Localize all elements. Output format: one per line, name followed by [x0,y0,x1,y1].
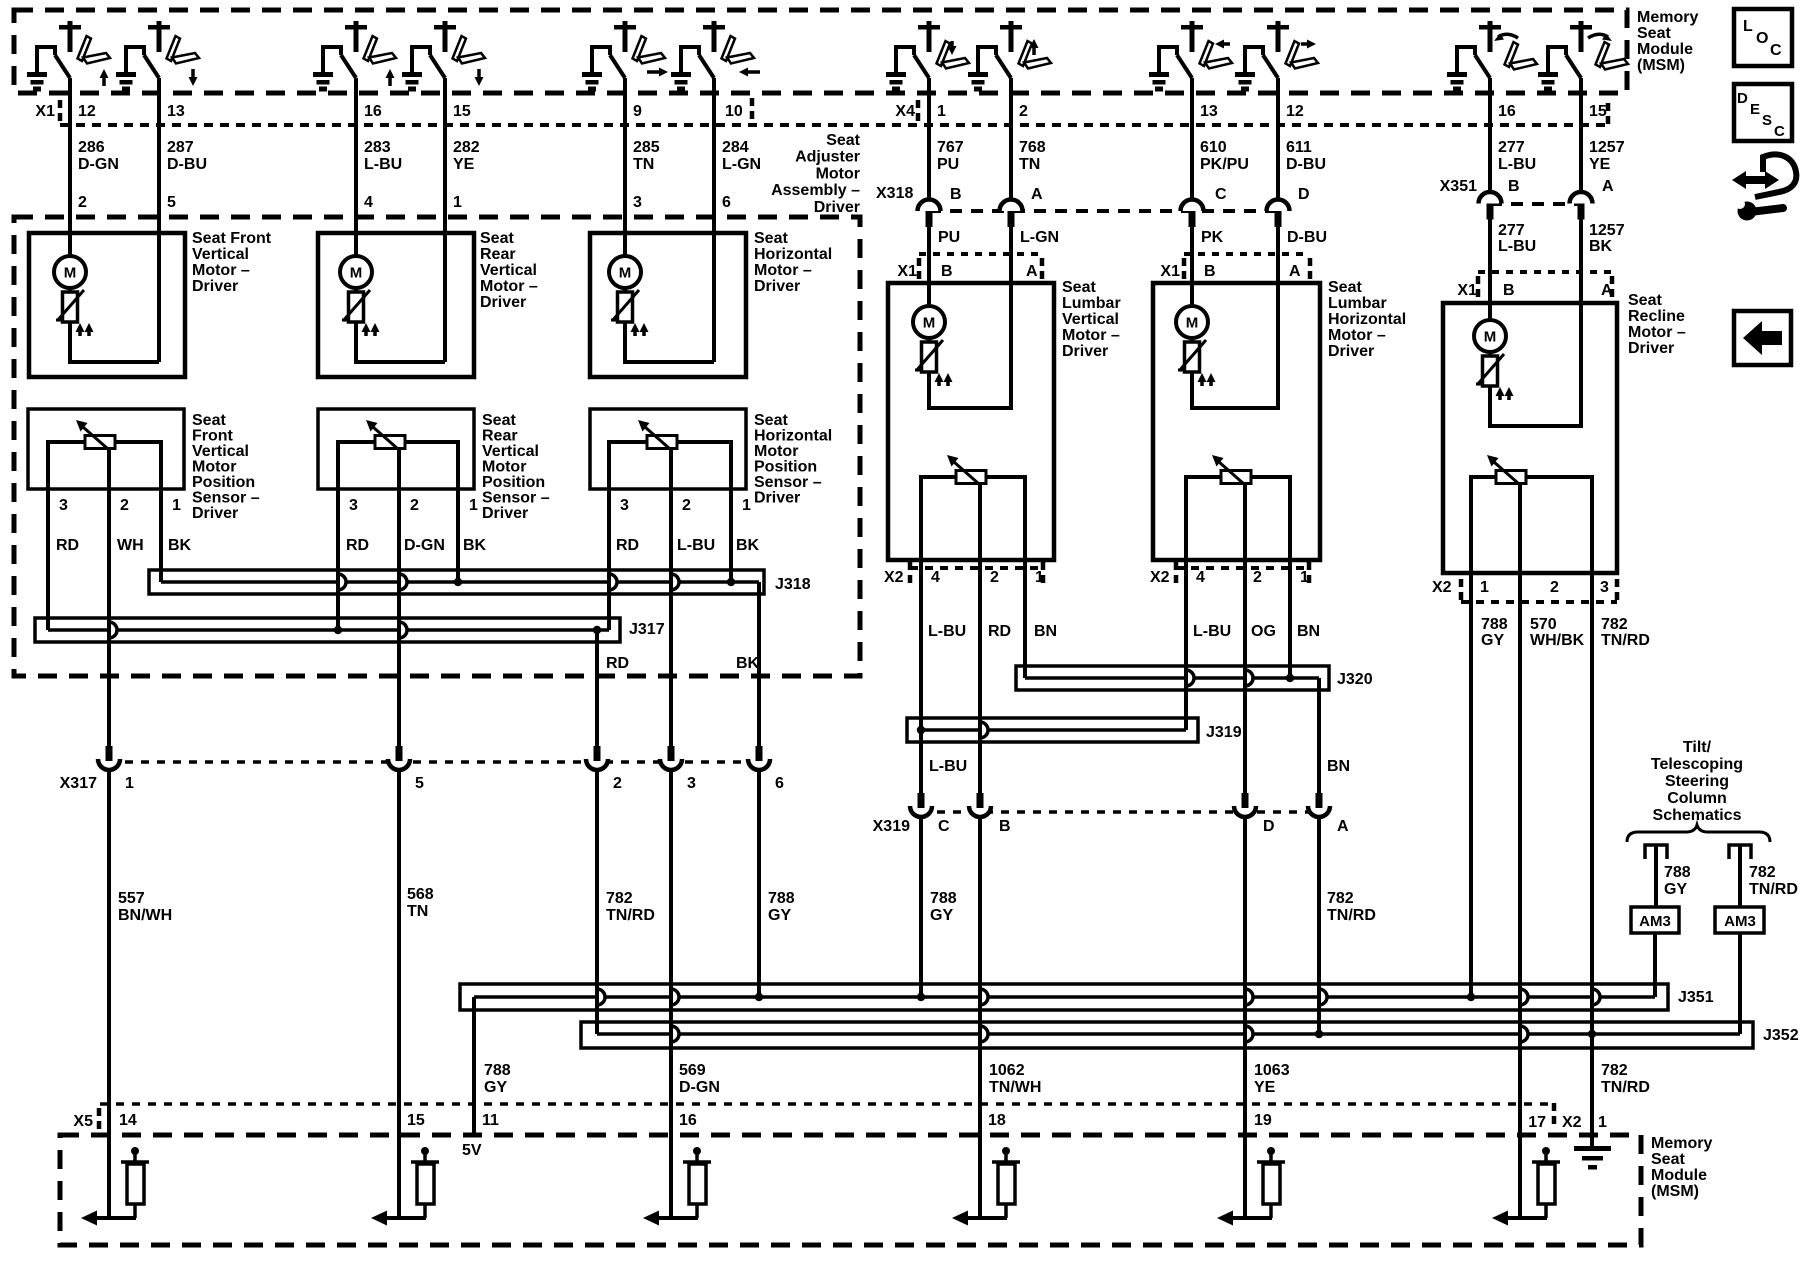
svg-text:TN: TN [1019,156,1040,173]
svg-text:C: C [938,818,950,835]
svg-text:16: 16 [1498,103,1516,120]
switch S9 lumbar horizontal back - contact wire [1159,47,1177,73]
arrow down S2 [191,69,195,79]
svg-text:Seat Front: Seat Front [192,230,272,247]
switch S4 seat rear vertical down - contact wire [412,47,430,73]
svg-text:788: 788 [930,890,957,907]
svg-text:3: 3 [1600,579,1609,596]
svg-text:X351: X351 [1440,178,1477,195]
legend icon double arrow [1743,176,1771,184]
svg-text:Assembly –: Assembly – [771,182,860,199]
svg-text:2: 2 [120,497,129,514]
svg-text:Seat: Seat [1651,1151,1685,1168]
output driver X5-17 [1518,1104,1522,1218]
motor M circle Seat Front Vertical Motor - Driver [54,256,86,288]
switch S8 lumbar vertical up - contact wire [978,47,996,73]
bidirectional arrows lumbar horizontal [1200,380,1204,386]
switch S2 seat front vertical down - pivot T [148,25,170,30]
svg-text:C: C [1215,186,1227,203]
switch S10 lumbar horizontal fwd - pivot T [1267,25,1289,30]
switch S12 recline fwd - blade [1566,55,1581,78]
svg-text:Driver: Driver [192,278,238,295]
connector X319 row [921,810,1319,814]
svg-text:J320: J320 [1337,671,1373,688]
output driver X5-19 [1243,1104,1247,1218]
switch S1 seat front vertical up - output wire [68,78,72,95]
wire lumbar-vert RD [978,560,982,793]
wire sensor1 WH wiper [107,448,111,748]
svg-text:M: M [64,265,77,282]
svg-text:BN: BN [1297,623,1320,640]
switch S3 seat rear vertical up - blade [341,55,356,78]
wire sensor3 L-BU wiper [669,448,673,748]
motor loop lumbar vertical [929,283,1011,408]
svg-text:Driver: Driver [192,505,238,522]
svg-text:S: S [1762,112,1772,129]
svg-text:Lumbar: Lumbar [1328,295,1387,312]
svg-text:Motor –: Motor – [1062,327,1120,344]
wire sensor2 BK [456,455,460,582]
svg-text:Vertical: Vertical [192,443,249,460]
svg-text:D-BU: D-BU [167,156,207,173]
svg-text:TN/RD: TN/RD [606,907,655,924]
switch S2 seat front vertical down - blade [144,55,159,78]
svg-text:Lumbar: Lumbar [1062,295,1121,312]
svg-text:Driver: Driver [482,505,528,522]
svg-text:J352: J352 [1763,1027,1799,1044]
wire 1062 TN/WH [978,815,982,1104]
svg-text:X2: X2 [1562,1114,1582,1131]
svg-text:9: 9 [633,103,642,120]
switch S12 recline fwd - seat icon [1596,42,1610,67]
wire 788 GY from X319-C [919,815,923,997]
svg-text:284: 284 [722,139,749,156]
svg-text:13: 13 [1200,103,1218,120]
wire J351 to X5-11 5V [472,997,476,1135]
output driver X5-16 [669,1104,673,1218]
connector X2 recline [1461,600,1617,604]
wire 782 TN/RD from X319-A [1317,815,1321,1034]
connector mark right of pin 15 [1606,103,1611,127]
svg-text:1257: 1257 [1589,222,1625,239]
svg-text:Horizontal: Horizontal [754,428,832,445]
connector X317 row [109,760,759,764]
switch S5 seat horizontal fwd - blade [610,55,625,78]
svg-text:(MSM): (MSM) [1651,1183,1699,1200]
svg-text:3: 3 [349,497,358,514]
svg-text:16: 16 [364,103,382,120]
legend box left arrow [1734,311,1791,365]
motor box Seat Rear Vertical Motor - Driver [318,233,474,377]
wire sensor3 RD [607,455,611,630]
switch S10 lumbar horizontal fwd - contact wire [1245,47,1263,73]
svg-text:X317: X317 [60,775,97,792]
wire J320 output BN [1317,678,1321,793]
switch S2 seat front vertical down - output wire [157,78,161,95]
chassis ground X2-1 [1574,1146,1611,1151]
wire 284 L-GN [712,94,716,362]
svg-text:D-BU: D-BU [1286,156,1326,173]
svg-text:B: B [950,186,962,203]
svg-text:X1: X1 [35,103,55,120]
legend box LOC [1734,9,1792,66]
switch S7 lumbar vertical down - seat icon [937,41,951,66]
wire 282 YE [443,94,447,362]
switch S9 lumbar horizontal back - seat icon [1200,41,1214,66]
bidirectional arrows Seat Horizontal Motor - Driver [633,330,637,336]
splice bus J351 [460,984,1668,1010]
svg-text:286: 286 [78,139,105,156]
svg-text:Horizontal: Horizontal [1328,311,1406,328]
connector X4 separator [916,100,921,124]
Seat Lumbar Vertical Motor box [888,283,1054,560]
wire 610 PK/PU [1190,94,1194,198]
svg-text:RD: RD [616,537,639,554]
svg-text:1: 1 [1035,569,1044,586]
wire J317 output RD [595,630,599,748]
svg-text:M: M [923,315,936,332]
svg-text:YE: YE [453,156,475,173]
svg-text:X5: X5 [73,1113,93,1130]
svg-text:GY: GY [768,907,791,924]
position sensor potentiometer Seat Rear Vertical Motor Position Sensor - Driver [375,436,405,449]
svg-text:1: 1 [453,194,462,211]
switch S12 recline fwd - output wire [1579,78,1583,95]
switch S10 lumbar horizontal fwd - output wire [1276,78,1280,95]
svg-text:283: 283 [364,139,391,156]
svg-text:BK: BK [736,655,760,672]
bidirectional arrows Seat Rear Vertical Motor - Driver [364,330,368,336]
svg-text:611: 611 [1286,139,1312,156]
svg-text:1: 1 [125,775,134,792]
svg-text:Sensor –: Sensor – [482,490,550,507]
svg-text:Recline: Recline [1628,308,1685,325]
connector X2 lumbar horizontal [1176,566,1309,570]
svg-text:5: 5 [167,194,176,211]
svg-text:AM3: AM3 [1724,913,1756,930]
svg-text:15: 15 [407,1112,425,1129]
svg-text:B: B [1508,178,1520,195]
switch S1 seat front vertical up - blade [55,55,70,78]
wire lumbar-vert BN [1023,560,1027,678]
connector X2 lumbar vertical [910,566,1043,570]
switch S7 lumbar vertical down - pivot T [918,25,940,30]
svg-text:A: A [1601,282,1613,299]
terminal to steering column left [1645,845,1667,859]
svg-text:J351: J351 [1678,989,1714,1006]
svg-text:(MSM): (MSM) [1637,57,1685,74]
wire 277 L-BU [1488,94,1492,192]
svg-text:L-BU: L-BU [1498,238,1536,255]
svg-text:BN/WH: BN/WH [118,907,172,924]
motor M circle Seat Horizontal Motor - Driver [609,256,641,288]
thermal protector Seat Rear Vertical Motor - Driver [354,288,358,292]
svg-text:1063: 1063 [1254,1062,1290,1079]
wire recline 782 TN/RD [1590,573,1594,1146]
switch S1 seat front vertical up - seat icon [78,36,92,61]
sensor leads Seat Rear Vertical Motor Position Sensor - Driver [338,442,375,462]
connector mark right of pin 10 [750,98,755,122]
switch S3 seat rear vertical up - output wire [354,78,358,95]
svg-text:Memory: Memory [1651,1135,1712,1152]
arrow up S3 [388,76,392,86]
switch S3 seat rear vertical up - seat icon [364,36,378,61]
svg-text:788: 788 [484,1062,511,1079]
switch S4 seat rear vertical down - pivot T [434,25,456,30]
switch S5 seat horizontal fwd - ground [590,45,594,73]
svg-text:M: M [350,265,363,282]
arrow left S9 [1222,42,1230,46]
svg-text:1: 1 [469,497,478,514]
svg-text:RD: RD [56,537,79,554]
wire lumbar-horiz L-BU [1184,560,1188,730]
svg-text:788: 788 [768,890,795,907]
connector X5 row [100,1102,1553,1106]
svg-text:WH/BK: WH/BK [1530,632,1585,649]
svg-text:Front: Front [192,428,234,445]
switch S11 recline back - seat icon [1505,42,1519,67]
motor box Seat Horizontal Motor - Driver [590,233,746,377]
motor box Seat Front Vertical Motor - Driver [29,233,185,377]
connector X1 recline [1478,270,1612,274]
svg-text:RD: RD [606,655,629,672]
switch S4 seat rear vertical down - ground [410,45,414,73]
motor M circle Seat Rear Vertical Motor - Driver [340,256,372,288]
svg-text:11: 11 [482,1112,499,1129]
svg-text:X1: X1 [1160,263,1180,280]
thermal protector Seat Horizontal Motor - Driver [623,288,627,292]
svg-text:Driver: Driver [1062,343,1108,360]
svg-text:X2: X2 [1432,579,1452,596]
switch S11 recline back - blade [1475,55,1490,78]
svg-text:2: 2 [1550,579,1559,596]
svg-text:Seat: Seat [482,412,516,429]
svg-text:Motor: Motor [816,165,860,182]
output driver X5-18 [978,1104,982,1218]
svg-text:C: C [1770,42,1782,59]
connector X1 lumbar vertical [919,252,1042,256]
motor loop wire Seat Rear Vertical Motor - Driver [356,322,445,362]
svg-text:2: 2 [613,775,622,792]
output driver X5-14 [107,1104,111,1218]
svg-text:3: 3 [633,194,642,211]
arrow up S8 [1032,46,1036,55]
motor M circle recline [1474,320,1506,352]
wire 788 GY from X317-6 [757,768,761,997]
arrow right S5 [647,70,661,74]
svg-text:D-BU: D-BU [1287,229,1327,246]
svg-text:L-BU: L-BU [929,758,967,775]
splice bus J319 [907,718,1198,742]
svg-text:285: 285 [633,139,660,156]
svg-text:Rear: Rear [480,246,516,263]
splice bus J318 [149,570,764,594]
svg-text:1: 1 [1300,569,1309,586]
svg-text:3: 3 [687,775,696,792]
svg-text:A: A [1337,818,1349,835]
svg-text:Seat: Seat [754,412,788,429]
svg-text:PU: PU [937,156,959,173]
svg-text:570: 570 [1530,616,1557,633]
svg-text:782: 782 [1749,864,1776,881]
svg-text:Driver: Driver [754,278,800,295]
position sensor potentiometer lumbar horizontal sensor [1221,471,1251,484]
svg-text:Seat: Seat [480,230,514,247]
svg-text:TN: TN [633,156,654,173]
wire 283 L-BU [354,94,358,256]
svg-text:15: 15 [453,103,471,120]
svg-text:782: 782 [1327,890,1354,907]
svg-text:YE: YE [1254,1079,1276,1096]
svg-text:1062: 1062 [989,1062,1025,1079]
svg-text:Seat: Seat [1637,25,1671,42]
switch S11 recline back - contact wire [1457,47,1475,73]
wire 782 TN/RD from X317-2 [595,768,599,1034]
svg-text:OG: OG [1251,623,1276,640]
svg-text:3: 3 [59,497,68,514]
switch S7 lumbar vertical down - contact wire [896,47,914,73]
svg-text:BK: BK [463,537,487,554]
switch S4 seat rear vertical down - output wire [443,78,447,95]
svg-text:Motor –: Motor – [480,278,538,295]
svg-text:1257: 1257 [1589,139,1625,156]
switch S12 recline fwd - pivot T [1570,25,1592,30]
wire 611 D-BU [1276,94,1280,198]
wire lumbar-vert L-BU [919,560,923,793]
switch S6 seat horizontal back - output wire [712,78,716,95]
svg-text:1: 1 [1480,579,1489,596]
wire J318 output BK [757,582,761,748]
svg-text:Seat: Seat [754,230,788,247]
svg-text:16: 16 [679,1112,697,1129]
switch S9 lumbar horizontal back - blade [1177,55,1192,78]
svg-text:2: 2 [410,497,419,514]
svg-text:788: 788 [1664,864,1691,881]
svg-text:Module: Module [1637,41,1693,58]
sensor box Seat Horizontal Motor Position Sensor - Driver [590,409,746,489]
svg-text:768: 768 [1019,139,1046,156]
svg-text:782: 782 [606,890,633,907]
svg-text:J319: J319 [1206,724,1242,741]
svg-text:Memory: Memory [1637,9,1698,26]
svg-text:TN/WH: TN/WH [989,1079,1041,1096]
switch S3 seat rear vertical up - contact wire [323,47,341,73]
svg-text:14: 14 [119,1112,137,1129]
position sensor potentiometer Seat Front Vertical Motor Position Sensor - Driver [85,436,115,449]
svg-text:Motor –: Motor – [192,262,250,279]
svg-text:Seat: Seat [1062,279,1096,296]
motor loop wire Seat Front Vertical Motor - Driver [70,322,159,362]
svg-text:J318: J318 [775,576,811,593]
svg-text:L-BU: L-BU [677,537,715,554]
svg-text:4: 4 [364,194,373,211]
svg-text:L-BU: L-BU [1193,623,1231,640]
splice bus J320 [1016,666,1329,690]
switch S6 seat horizontal back - contact wire [681,47,699,73]
svg-text:Driver: Driver [1328,343,1374,360]
svg-text:287: 287 [167,139,194,156]
svg-text:782: 782 [1601,616,1628,633]
switch S10 lumbar horizontal fwd - ground [1243,45,1247,73]
svg-text:6: 6 [775,775,784,792]
switch S9 lumbar horizontal back - ground [1157,45,1161,73]
svg-text:1: 1 [172,497,181,514]
svg-text:X319: X319 [873,818,910,835]
svg-text:Position: Position [192,474,255,491]
Seat Lumbar Horizontal Motor box [1153,283,1320,560]
Memory Seat Module (MSM) top dashed box [14,10,1627,93]
svg-text:WH: WH [117,537,144,554]
svg-text:L-GN: L-GN [1020,229,1059,246]
svg-text:PK: PK [1201,229,1224,246]
motor loop recline [1490,303,1581,426]
wire 568 TN [397,768,401,1104]
svg-text:O: O [1756,30,1768,47]
legend icon hook arrow [1755,154,1796,197]
svg-text:BN: BN [1327,758,1350,775]
wire sensor3 BK [729,455,733,582]
switch S11 recline back - pivot T [1479,25,1501,30]
svg-text:L-GN: L-GN [722,156,761,173]
position sensor potentiometer recline sensor [1496,471,1526,484]
svg-text:X1: X1 [1457,282,1477,299]
brace [1627,825,1770,842]
wires X318 to lumbar boxes [927,227,931,306]
svg-text:BK: BK [168,537,192,554]
fuse AM3 right [1715,907,1764,933]
svg-text:GY: GY [484,1079,507,1096]
connector X1 separator [58,100,63,124]
wire 767 PU [927,94,931,198]
svg-text:18: 18 [988,1112,1006,1129]
svg-text:A: A [1026,263,1038,280]
wires X351 to recline box [1488,219,1492,320]
motor loop wire Seat Horizontal Motor - Driver [625,322,714,362]
motor loop lumbar horizontal [1192,283,1278,408]
svg-text:BK: BK [736,537,760,554]
switch S8 lumbar vertical up - seat icon [1019,41,1033,66]
svg-text:5V: 5V [462,1142,482,1159]
svg-text:L-BU: L-BU [364,156,402,173]
sensor box Seat Front Vertical Motor Position Sensor - Driver [28,409,184,489]
switch S2 seat front vertical down - contact wire [126,47,144,73]
arrow down S4 [477,69,481,79]
svg-text:Position: Position [482,474,545,491]
svg-text:B: B [941,263,953,280]
svg-text:Rear: Rear [482,428,518,445]
switch S7 lumbar vertical down - blade [914,55,929,78]
svg-text:Vertical: Vertical [1062,311,1119,328]
svg-text:D: D [1737,90,1748,107]
wire 285 TN [623,94,627,256]
svg-text:1: 1 [937,103,946,120]
svg-text:BK: BK [1589,238,1613,255]
switch S11 recline back - ground [1455,45,1459,73]
switch S7 lumbar vertical down - ground [894,45,898,73]
svg-text:TN/RD: TN/RD [1327,907,1376,924]
thermal protector recline [1488,352,1492,356]
svg-text:Motor: Motor [192,459,236,476]
wire recline 570 WH/BK [1518,573,1522,1104]
switch S9 lumbar horizontal back - output wire [1190,78,1194,95]
svg-text:10: 10 [725,103,743,120]
svg-text:Tilt/: Tilt/ [1683,739,1712,756]
wire sensor2 RD [336,455,340,630]
svg-text:568: 568 [407,886,434,903]
svg-text:Column: Column [1667,790,1727,807]
switch S12 recline fwd - ground [1546,45,1550,73]
wire 1063 YE [1243,815,1247,1104]
